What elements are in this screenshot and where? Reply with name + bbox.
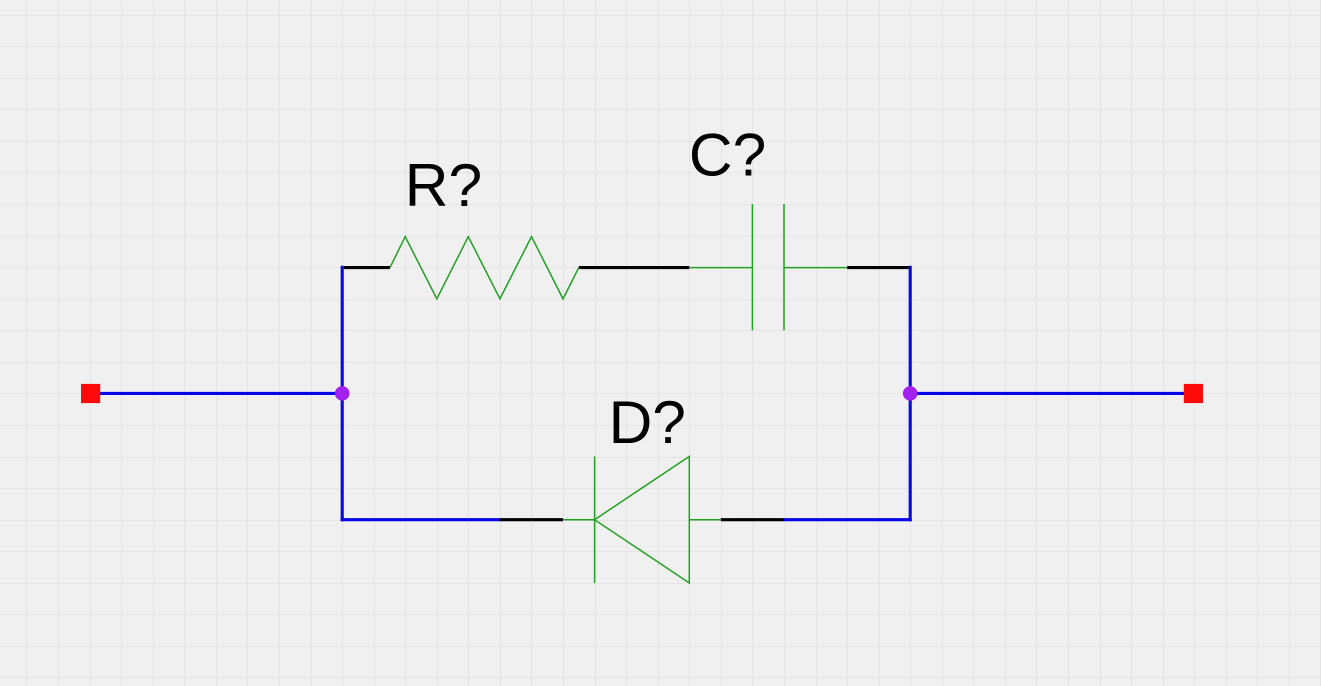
terminal: left port (red square) [81, 384, 100, 403]
wire: top rail black segment left of resistor [344, 266, 390, 269]
terminal: right port (red square) [1184, 384, 1203, 403]
wire: bottom-left blue segment [341, 518, 502, 521]
node: right junction [903, 386, 918, 401]
svg-text:C?: C? [689, 121, 766, 189]
wire: bottom rail black segment right of diode [721, 518, 784, 521]
wire: left vertical branch [341, 266, 344, 522]
resistor R? [390, 237, 579, 299]
wire: bottom rail black segment left of diode [500, 518, 563, 521]
wire: top rail black segment between resistor and capacitor [579, 266, 690, 269]
svg-text:R?: R? [405, 151, 482, 219]
wire: left terminal to left junction [100, 392, 342, 395]
wire: top rail black segment right of capacitor [847, 266, 909, 269]
wire: bottom-right blue segment [784, 518, 912, 521]
svg-text:D?: D? [609, 388, 686, 456]
capacitor C? [689, 204, 847, 330]
diode D? [563, 456, 721, 583]
node: left junction [335, 386, 350, 401]
wire: right junction to right terminal [909, 392, 1184, 395]
wire: right vertical branch [909, 266, 912, 522]
